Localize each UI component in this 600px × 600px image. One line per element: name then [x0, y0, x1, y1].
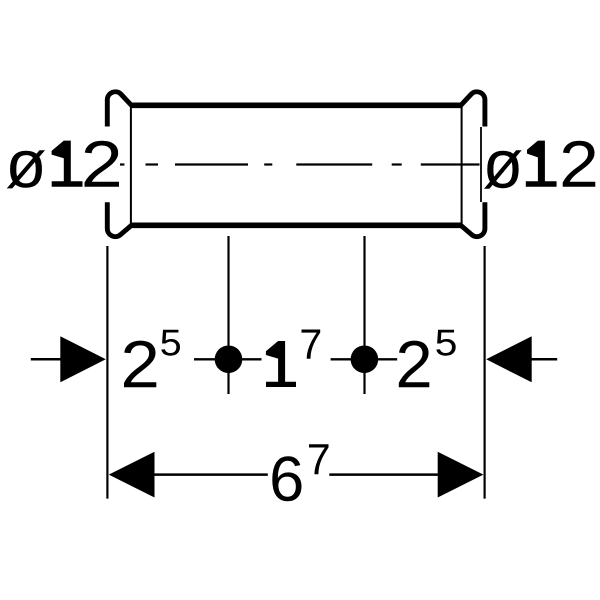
top dimension line segment b	[242, 358, 262, 360]
coupling body right edge	[461, 104, 463, 228]
top dimension line segment a	[194, 358, 215, 360]
label diameter symbol left	[7, 150, 45, 188]
press bead top-left	[107, 92, 131, 127]
label diameter symbol right	[484, 150, 522, 188]
label diameter 12 left digit 1 (Verdana-style with foot bar)	[52, 141, 83, 187]
label 6.7 digit 6	[272, 456, 301, 501]
label 2.5 right digit 2	[399, 341, 429, 388]
label diameter 12 right digit 2	[563, 141, 596, 187]
extension line inner right	[363, 236, 365, 394]
label diameter 12 left digit 2	[84, 141, 118, 187]
press bead bottom-right	[461, 202, 485, 236]
dimension origin dot 1	[215, 346, 243, 374]
overall dimension line left segment	[154, 473, 268, 476]
dimension origin dot 2	[351, 346, 379, 374]
label 1.7 digit 1 (Verdana-style with foot bar)	[266, 341, 296, 387]
label 2.5 right superscript 5	[436, 330, 455, 356]
extension line inner left	[227, 236, 229, 394]
top dimension arrow left tail	[31, 358, 61, 361]
coupling body left edge	[130, 104, 132, 228]
overall dimension arrow bottom-right	[438, 452, 484, 498]
overall dimension arrow bottom-left	[109, 452, 155, 498]
top dimension arrow right tail	[531, 358, 557, 361]
label 2.5 left digit 2	[124, 341, 156, 388]
centerline dash-dot through part axis	[120, 163, 480, 165]
top dimension line segment d	[378, 358, 397, 360]
overall dimension line right segment	[329, 473, 438, 476]
label 2.5 left superscript 5	[161, 330, 180, 356]
press bead top-right	[461, 92, 485, 127]
label diameter 12 right digit 1 (Verdana-style with foot bar)	[526, 141, 557, 187]
coupling body bottom outline	[131, 222, 462, 228]
coupling body top outline	[131, 102, 462, 108]
top dimension arrow right	[486, 336, 532, 382]
top dimension line segment c	[331, 358, 351, 360]
extension line outer right	[484, 246, 486, 499]
label 1.7 superscript 7	[302, 329, 321, 358]
press bead bottom-left	[107, 202, 131, 236]
top dimension arrow left	[60, 336, 106, 382]
bead silhouette line right	[480, 127, 482, 202]
label 6.7 superscript 7	[309, 444, 328, 474]
extension line outer left	[106, 246, 108, 499]
